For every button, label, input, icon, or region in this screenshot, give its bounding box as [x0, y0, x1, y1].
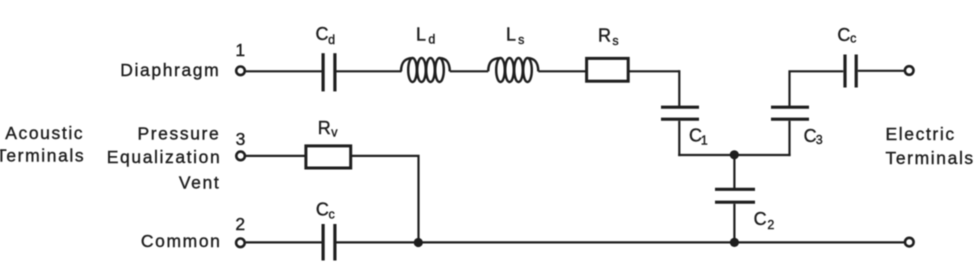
- capacitor C3: [771, 107, 809, 119]
- wire Cc to electric terminal top: [858, 70, 904, 72]
- wire Rv to corner and down to common: [351, 156, 419, 243]
- terminal 3 (Vent): [236, 152, 245, 161]
- wire common to electric terminal bottom: [337, 241, 905, 243]
- svg-text:Acoustic: Acoustic: [5, 123, 84, 143]
- electric terminal top: [905, 66, 914, 75]
- svg-text:c: c: [329, 207, 335, 221]
- svg-text:s: s: [518, 33, 524, 47]
- svg-text:C: C: [316, 200, 329, 220]
- svg-text:s: s: [612, 34, 618, 48]
- wire Cd to Ld: [337, 70, 402, 72]
- wire terminal2 to Cc bottom: [246, 241, 322, 243]
- svg-text:Diaphragm: Diaphragm: [120, 60, 220, 80]
- wire C1 down to node row: [678, 121, 680, 156]
- svg-text:Vent: Vent: [179, 173, 220, 193]
- wire Ld to Ls: [450, 70, 488, 72]
- wire terminal1 to Cd: [246, 70, 322, 72]
- capacitor Cc bottom: [323, 224, 335, 261]
- svg-text:c: c: [850, 32, 856, 46]
- wire C3 down to node row: [788, 121, 790, 156]
- svg-text:C: C: [837, 25, 850, 45]
- svg-text:1: 1: [235, 40, 246, 60]
- svg-text:v: v: [331, 126, 338, 140]
- wire terminal3 to Rv: [246, 155, 306, 157]
- resistor Rs: [587, 58, 629, 81]
- svg-text:d: d: [428, 33, 435, 47]
- svg-text:d: d: [328, 33, 335, 47]
- wire down to C1: [678, 70, 680, 106]
- wire Rs to corner above C1: [628, 70, 679, 72]
- terminal 2 (Common): [236, 239, 245, 248]
- svg-text:R: R: [598, 26, 611, 46]
- capacitor Cc top right: [845, 55, 856, 88]
- svg-text:3: 3: [816, 133, 823, 147]
- capacitor C2: [715, 189, 755, 202]
- svg-text:2: 2: [767, 218, 774, 232]
- svg-text:L: L: [506, 25, 516, 45]
- svg-text:Terminals: Terminals: [0, 146, 85, 166]
- wire C2 down to common: [733, 204, 735, 243]
- svg-text:C: C: [754, 209, 767, 229]
- svg-text:Electric: Electric: [886, 124, 956, 144]
- resistor Rv: [306, 146, 351, 168]
- wire up from C3 to top row and over to Cc: [790, 71, 844, 106]
- svg-text:3: 3: [236, 129, 247, 149]
- junction node C2-common: [730, 238, 739, 247]
- wire Ls to Rs: [538, 70, 586, 72]
- svg-text:L: L: [416, 25, 426, 45]
- svg-text:Terminals: Terminals: [886, 148, 975, 168]
- electric terminal bottom: [905, 238, 914, 247]
- capacitor C1: [661, 107, 699, 119]
- svg-text:C: C: [804, 126, 817, 146]
- svg-text:R: R: [318, 118, 331, 138]
- svg-text:Common: Common: [141, 231, 222, 251]
- inductor Ls: [488, 58, 538, 82]
- junction node vent-common: [414, 238, 423, 247]
- svg-text:Equalization: Equalization: [107, 147, 222, 167]
- inductor Ld: [401, 58, 450, 82]
- svg-text:C: C: [316, 24, 329, 44]
- wire node down to C2: [733, 155, 735, 188]
- terminal 1 (Diaphragm): [236, 67, 245, 76]
- wire node row C1 to C3: [678, 154, 790, 156]
- svg-text:2: 2: [235, 214, 246, 234]
- svg-text:1: 1: [701, 133, 708, 147]
- svg-text:Pressure: Pressure: [137, 123, 220, 143]
- junction node C1-C3-C2: [730, 150, 739, 159]
- capacitor Cd: [323, 53, 335, 91]
